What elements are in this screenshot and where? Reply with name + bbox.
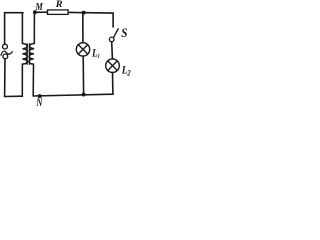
wire primary left lower — [4, 59, 6, 97]
wire L2 to bottom-right corner — [112, 73, 114, 95]
AC source tilde — [1, 51, 12, 55]
AC source terminal lower — [3, 54, 8, 59]
lamp L2 — [106, 59, 120, 73]
transformer secondary winding — [29, 13, 35, 96]
wire L1 branch upper — [82, 13, 84, 43]
node N junction dot — [38, 94, 42, 98]
transformer primary winding — [22, 13, 27, 96]
wire switch to lamp L2 — [111, 42, 114, 59]
switch S contact circle — [109, 37, 114, 42]
wire L1 branch lower — [82, 56, 84, 94]
wire secondary bottom — [33, 94, 113, 96]
wire primary left upper — [4, 13, 6, 44]
junction node bottom of L1 branch — [82, 93, 86, 97]
svg-text:S: S — [121, 26, 127, 40]
resistor R box — [48, 10, 69, 15]
svg-text:M: M — [35, 1, 44, 13]
transformer core — [27, 44, 29, 64]
AC source terminal upper — [3, 44, 8, 49]
wire M to resistor — [36, 11, 47, 13]
wire primary top — [5, 12, 23, 14]
wire primary bottom — [5, 95, 23, 97]
svg-text:R: R — [55, 0, 63, 10]
wire resistor to top-right corner — [68, 12, 113, 27]
svg-text:2: 2 — [126, 68, 131, 78]
junction node top of L1 branch — [82, 11, 86, 15]
svg-text:N: N — [35, 96, 42, 107]
lamp L1 — [76, 43, 89, 56]
switch S blade — [114, 29, 119, 38]
svg-text:1: 1 — [98, 53, 100, 60]
node M junction dot — [33, 10, 37, 14]
